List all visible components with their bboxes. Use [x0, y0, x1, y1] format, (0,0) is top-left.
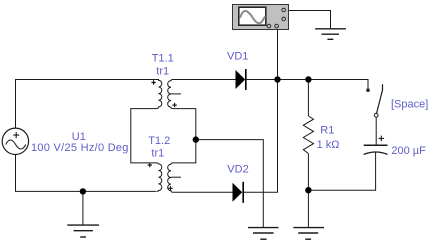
svg-text:200 µF: 200 µF [391, 145, 426, 157]
svg-text:tr1: tr1 [156, 66, 169, 78]
svg-text:T1.2: T1.2 [148, 135, 170, 147]
svg-text:100 V/25 Hz/0 Deg: 100 V/25 Hz/0 Deg [31, 142, 129, 154]
svg-text:R1: R1 [320, 124, 334, 136]
svg-text:tr1: tr1 [151, 148, 164, 160]
svg-text:[Space]: [Space] [391, 99, 428, 111]
svg-text:VD1: VD1 [227, 51, 248, 63]
svg-text:1 kΩ: 1 kΩ [317, 139, 340, 151]
svg-text:VD2: VD2 [227, 164, 248, 176]
svg-text:T1.1: T1.1 [152, 52, 174, 64]
